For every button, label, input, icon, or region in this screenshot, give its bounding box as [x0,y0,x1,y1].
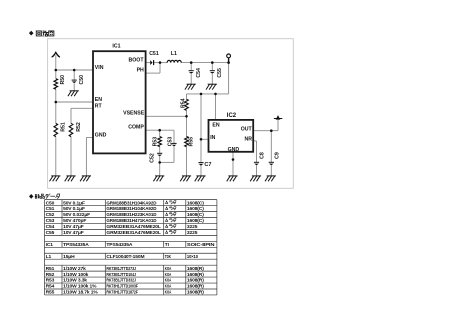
ground below C50 [70,90,79,92]
svg-text:RK73B1JTTD104J: RK73B1JTTD104J [106,272,136,278]
wire: node to L1 and output line [160,62,167,64]
capacitor C9 [269,161,274,163]
resistor R55 [185,136,189,146]
resistor R50 [54,79,58,90]
svg-text:VIN: VIN [95,65,104,71]
svg-text:IC1: IC1 [112,44,120,50]
svg-text:EN: EN [95,97,102,103]
ground below C8 [252,175,261,177]
svg-text:RK73B1JTTD332J: RK73B1JTTD332J [106,278,136,284]
node: EN junction [55,101,58,104]
svg-text:GRM188B31H223KA01D: GRM188B31H223KA01D [106,212,157,218]
node: VIN rail junction [55,69,58,72]
ground below R52 [66,175,75,177]
svg-text:C54: C54 [196,68,202,78]
svg-text:C53: C53 [167,137,173,147]
svg-text:L1: L1 [46,254,52,260]
svg-text:R54: R54 [46,284,55,290]
svg-text:1608(C): 1608(C) [187,212,204,218]
ground below R55 [182,175,191,177]
svg-text:C7: C7 [204,162,211,168]
node: C55 junction [211,61,214,64]
wire: IC1 GND down [86,137,93,139]
resistor R52 [69,123,73,136]
svg-text:COMP: COMP [128,125,144,131]
svg-text:C52: C52 [150,153,156,163]
svg-text:50V 470pF: 50V 470pF [63,218,86,224]
svg-text:NR: NR [245,136,253,142]
svg-text:TPS54335A: TPS54335A [106,242,133,248]
inductor L1 [167,60,181,62]
wire: C53 bottom return [160,161,174,163]
svg-text:RT: RT [95,104,103,110]
wire: EN horizontal [56,101,93,103]
svg-text:R55: R55 [46,290,55,296]
svg-text:R53: R53 [46,278,55,284]
wire: C54 branch [190,63,192,71]
wire: BOOT to C51 [146,62,151,64]
node: COMP junction [158,129,161,132]
section title 回路図 (circuit diagram) [29,31,54,36]
node: VSENSE divider junction [185,115,188,118]
svg-text:3225: 3225 [187,224,198,230]
node: BOOT/PH/L1 junction [159,61,162,64]
svg-text:1608(C): 1608(C) [187,206,204,212]
svg-text:10V 47μF: 10V 47μF [63,230,84,236]
svg-text:CLF10040T-150M: CLF10040T-150M [106,254,144,260]
ground below C55 [208,83,217,85]
svg-text:RK73H1JTTD1872F: RK73H1JTTD1872F [106,290,138,296]
svg-text:1/10W 100k 1%: 1/10W 100k 1% [63,284,97,290]
wire: R52 bottom [70,137,72,176]
svg-text:10V 47μF: 10V 47μF [63,224,84,230]
svg-text:R51: R51 [46,266,55,272]
wire: VIN horizontal [56,69,93,71]
wire: R55 leads [186,116,188,136]
svg-text:50V 0.022μF: 50V 0.022μF [63,212,90,218]
wire: COMP horizontal [146,129,174,131]
svg-text:TDK: TDK [165,254,172,260]
wire: VSENSE horizontal [146,115,187,117]
svg-text:GND: GND [228,147,240,153]
IC IC2 (LDO regulator) box [209,120,254,152]
node: IC2 GND wire dot [232,158,235,161]
node: C50 junction [73,69,76,72]
svg-text:GRM32EB31A476ME20L: GRM32EB31A476ME20L [106,224,161,230]
svg-text:SOIC-8PIN: SOIC-8PIN [187,242,215,248]
wire: C55 branch [211,63,213,71]
svg-text:KOA: KOA [165,278,172,284]
output terminal VOUT1 [227,54,231,58]
svg-text:1608(R): 1608(R) [187,278,204,284]
wire: VOUT2 arrow stem [277,119,279,130]
wire: C7 branch [200,139,202,162]
svg-text:GRM188B31H104KA92D: GRM188B31H104KA92D [106,206,157,212]
svg-text:1608(R): 1608(R) [187,284,204,290]
ground below IC1 GND [82,175,91,177]
svg-text:C8: C8 [260,152,266,159]
input power arrow [52,52,60,57]
svg-text:GRM188B31H104KA92D: GRM188B31H104KA92D [106,200,157,206]
node: IN rail junction on feedback line [200,93,203,96]
svg-text:C55: C55 [217,68,223,78]
svg-text:PH: PH [137,68,144,74]
svg-text:IN: IN [210,135,215,141]
svg-text:1608(C): 1608(C) [187,218,204,224]
wire: R54 leads [186,94,188,99]
svg-text:50V 0.1μF: 50V 0.1μF [63,200,85,206]
svg-text:1/10W 27k: 1/10W 27k [63,266,86,272]
wire: PH branch [159,63,161,74]
capacitor C53 [171,142,176,144]
node: EN rail junction on feedback line [214,93,217,96]
node: C54 junction [190,61,193,64]
capacitor C52 [157,152,162,154]
wire: IN pin [201,138,209,140]
svg-text:OUT: OUT [241,126,253,132]
wire: NR to C8 [253,140,256,142]
svg-text:KOA: KOA [165,266,172,272]
svg-text:50V 0.1μF: 50V 0.1μF [63,206,85,212]
ground below C7 [196,175,205,177]
schematic frame border [48,39,294,189]
node: IC2 IN junction [200,138,203,141]
svg-text:C50: C50 [79,75,85,85]
capacitor C54 [189,70,194,72]
svg-text:R53: R53 [152,137,158,147]
svg-text:1608(C): 1608(C) [187,200,204,206]
svg-text:RK73B1JTTD273J: RK73B1JTTD273J [106,266,136,272]
svg-text:GND: GND [95,133,107,139]
svg-text:1608(R): 1608(R) [187,272,204,278]
wire: IN rail from feedback line [200,94,202,139]
wire: R53 C52 chain [159,130,161,136]
svg-text:R55: R55 [189,137,195,147]
svg-text:EN: EN [212,122,219,128]
svg-text:TPS54335A: TPS54335A [63,242,89,248]
wire: input rail vertical x=55.8 [55,55,57,78]
svg-text:R50: R50 [60,75,66,85]
wire: C53 branch [173,130,175,143]
capacitor C51 bootstrap [150,60,152,65]
node: OUT/C9 junction [270,129,273,132]
svg-text:R51: R51 [61,122,67,132]
svg-text:15μH: 15μH [63,254,75,260]
svg-text:C51: C51 [46,206,55,212]
output arrow VOUT2 [276,115,281,120]
svg-text:IC1: IC1 [46,242,54,248]
wire: C51 to node [154,62,160,64]
svg-text:R52: R52 [76,122,82,132]
wire: C9 branch [270,131,272,162]
svg-text:GRM188B31H471KA01D: GRM188B31H471KA01D [106,218,157,224]
parts data table [45,200,217,295]
wire: C50 branch [73,70,75,80]
svg-text:C54: C54 [46,224,55,230]
resistor R54 [185,99,189,110]
svg-text:C55: C55 [46,230,55,236]
svg-text:KOA: KOA [165,290,172,296]
svg-text:C53: C53 [46,218,55,224]
svg-text:1608(R): 1608(R) [187,266,204,272]
svg-text:1/10W 18.7k 1%: 1/10W 18.7k 1% [63,290,98,296]
resistor R53 [158,137,162,147]
svg-text:BOOT: BOOT [129,58,145,64]
svg-text:L1: L1 [171,51,177,57]
svg-text:C51: C51 [149,51,159,57]
wire: RT to R52 [71,107,93,109]
svg-text:KOA: KOA [165,272,172,278]
wire: feedback horizontal line [187,93,229,95]
svg-text:C52: C52 [46,212,55,218]
IC IC1 (TPS54335A buck converter) box [93,51,146,153]
svg-text:1/10W 100k: 1/10W 100k [63,272,89,278]
ground below C52 [155,175,164,177]
svg-text:R52: R52 [46,272,55,278]
wire: IC2 GND down [232,152,234,176]
svg-text:VSENSE: VSENSE [123,110,145,116]
node: output corner junction [227,61,230,64]
capacitor C50 [72,79,77,81]
svg-text:KOA: KOA [165,284,172,290]
ground below IC2 GND [228,175,237,177]
ground below R51 [51,175,60,177]
svg-text:10×10: 10×10 [187,254,198,260]
wire: IC2 OUT [253,130,278,132]
svg-text:R54: R54 [181,98,187,108]
node: C52 bottom junction [158,161,161,164]
svg-text:C50: C50 [46,200,55,206]
wire: output down to feedback line [228,63,230,94]
section title 部品データ (parts data) [29,194,60,199]
ground below C54 [187,83,196,85]
svg-text:IC2: IC2 [227,113,237,119]
capacitor C8 [254,161,259,163]
svg-text:RK73H1JTTD1003F: RK73H1JTTD1003F [106,284,138,290]
svg-text:C9: C9 [275,152,281,159]
svg-text:3225: 3225 [187,230,198,236]
capacitor C7 [198,162,203,164]
wire: EN rail to IC2 [215,94,217,120]
capacitor C55 [210,70,215,72]
svg-text:1608(R): 1608(R) [187,290,204,296]
resistor R51 [54,123,58,136]
svg-text:GRM32EB31A476ME20L: GRM32EB31A476ME20L [106,230,161,236]
ground below C9 [267,175,276,177]
svg-text:1/10W 3.3k: 1/10W 3.3k [63,278,87,284]
